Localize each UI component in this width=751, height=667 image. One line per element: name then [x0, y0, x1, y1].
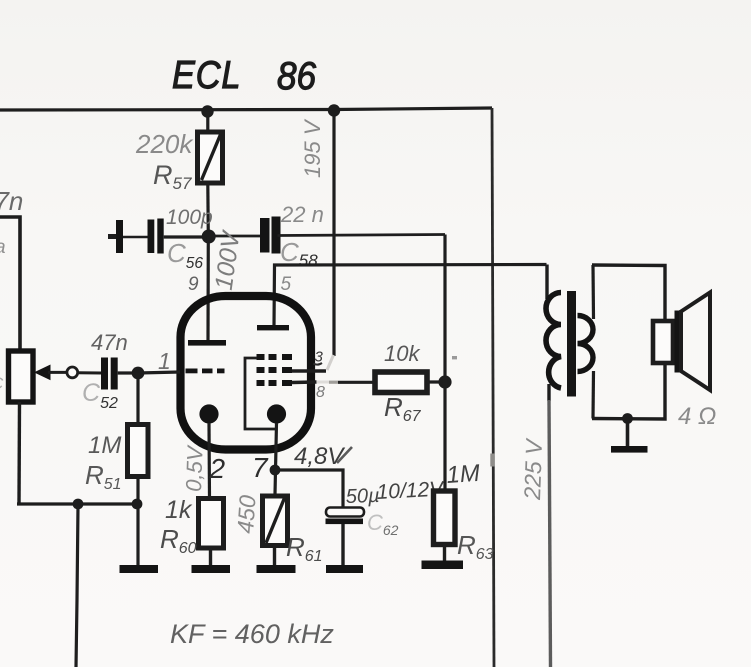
ground under C62 [326, 565, 363, 573]
wire grid1 to tube [138, 372, 180, 373]
svg-text:50µ: 50µ [345, 485, 380, 508]
node junction speaker gnd [622, 413, 633, 424]
speaker LS [653, 293, 710, 391]
resistor R63 [434, 491, 456, 562]
wire speaker bottom rail [592, 363, 665, 419]
svg-text:4,8V: 4,8V [294, 443, 345, 470]
node junction R57/C56/C58/anode [202, 230, 216, 244]
speck [452, 356, 457, 359]
svg-text:10k: 10k [384, 341, 420, 366]
svg-text:1M: 1M [88, 432, 121, 459]
svg-text:195 V: 195 V [300, 118, 325, 178]
wire junction to C58 [209, 235, 260, 238]
svg-text:ECL: ECL [172, 53, 241, 97]
transformer T secondary [578, 265, 594, 419]
wire pentode cathode lead pin 7 [275, 423, 277, 494]
svg-text:22 n: 22 n [280, 202, 324, 227]
svg-text:4 Ω: 4 Ω [678, 403, 716, 430]
triode grid dashes [186, 369, 198, 374]
wire top supply bus [0, 108, 492, 110]
svg-text:1M: 1M [446, 460, 481, 489]
resistor R67 [375, 372, 427, 393]
transformer core [567, 291, 576, 397]
node junction top bus / 195V [328, 104, 340, 116]
stray slash after 4,8V [337, 447, 352, 463]
resistor R61 [263, 496, 288, 567]
ground under R60 [192, 565, 231, 573]
wiper arrow [34, 365, 51, 381]
ground under R51 [120, 565, 159, 573]
node junction R67/C58/R63 [438, 375, 451, 388]
wire cathode7 to C62 [275, 470, 343, 508]
svg-text:2: 2 [209, 453, 226, 484]
wire 195V line [332, 110, 335, 356]
wire output drop to bottom [76, 506, 78, 667]
ground under R61 [257, 565, 296, 573]
transformer T primary [546, 265, 561, 402]
node junction rail/output [73, 499, 84, 510]
svg-text:86: 86 [277, 53, 316, 97]
svg-text:8: 8 [316, 384, 325, 401]
resistor R60 [199, 499, 224, 568]
wire screen grid stub pin 3 [292, 369, 326, 373]
ground under R63 [422, 561, 464, 570]
node junction cathode7/C62 [270, 465, 281, 476]
pentode anode plate [257, 325, 289, 330]
svg-text:KF = 460 kHz: KF = 460 kHz [170, 619, 334, 649]
potentiometer P [9, 351, 102, 504]
wire left input top [0, 217, 20, 351]
wire g3 link to cathode [245, 358, 276, 429]
wire triode cathode lead pin 2 [207, 423, 211, 499]
wire bottom left rail [17, 502, 138, 505]
svg-text:220k: 220k [135, 129, 194, 159]
svg-text:a: a [0, 237, 6, 258]
svg-text:450: 450 [232, 494, 261, 534]
wire pentode anode to transformer [274, 265, 547, 327]
capacitor C62 electrolytic [326, 508, 365, 568]
svg-text:47n: 47n [0, 186, 23, 216]
resistor R57 [198, 112, 223, 237]
node junction top bus / R57 [201, 105, 213, 117]
gray segment on B+ line [490, 454, 494, 467]
svg-text:0,5V: 0,5V [181, 444, 208, 492]
wire triode anode lead [206, 237, 210, 340]
wire speaker top rail [592, 265, 665, 321]
wire faint link 195V to g2 [327, 355, 334, 370]
svg-text:100p: 100p [166, 206, 213, 229]
triode anode plate [188, 340, 226, 346]
pentode cathode [267, 404, 286, 423]
svg-text:1k: 1k [165, 496, 193, 524]
wire 225V drop to bottom [549, 400, 551, 667]
wire grid lead to R67 (partly faded) [292, 380, 317, 384]
svg-text:1: 1 [158, 348, 171, 374]
node junction C52/R51/grid [132, 367, 145, 380]
svg-text:47n: 47n [91, 330, 128, 355]
capacitor C56 [108, 219, 209, 254]
resistor R51 [128, 373, 149, 565]
svg-text:3: 3 [315, 349, 324, 366]
node junction rail/R51 [132, 499, 143, 510]
wire B+ drop to bottom [492, 108, 494, 667]
capacitor C58 [260, 217, 445, 254]
triode cathode [199, 404, 218, 423]
svg-text:9: 9 [188, 274, 199, 295]
svg-text:7: 7 [252, 452, 269, 483]
pentode grid dots 3x3 [257, 354, 293, 386]
svg-text:5: 5 [281, 274, 292, 295]
svg-text:225 V: 225 V [519, 437, 547, 502]
wire C58 node down to R63 [443, 235, 446, 492]
tube ECL86 envelope [181, 296, 312, 450]
ground speaker [626, 419, 630, 447]
capacitor C52 [101, 358, 138, 390]
